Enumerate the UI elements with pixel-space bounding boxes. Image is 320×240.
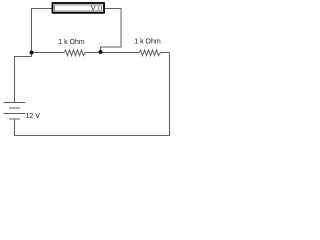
- voltmeter U1 inner display: [55, 5, 102, 11]
- wire: bottom wire: [15, 135, 170, 137]
- svg-text:V: V: [91, 6, 96, 13]
- wire: voltmeter left lead horizontal: [31, 8, 52, 10]
- node junction dot right: [99, 50, 103, 54]
- wire: voltmeter left lead vertical: [31, 9, 33, 53]
- wire: right side vertical: [169, 53, 171, 136]
- svg-text:1 k Ohm: 1 k Ohm: [58, 39, 85, 46]
- wire: top main wire left segment: [31, 52, 64, 54]
- resistor R2 1 k Ohm zigzag: [139, 50, 161, 56]
- svg-text:12 V: 12 V: [26, 113, 41, 120]
- voltmeter U1 divider: [98, 5, 100, 11]
- resistor R1 1 k Ohm zigzag: [64, 50, 85, 56]
- svg-text:1 k Ohm: 1 k Ohm: [134, 38, 161, 45]
- wire: left jog vertical: [31, 53, 33, 57]
- wire: top main wire middle segment: [85, 52, 139, 54]
- battery V1 12 V plates: [4, 103, 26, 120]
- node junction dot left: [30, 51, 34, 55]
- wire: left jog horizontal: [14, 56, 32, 58]
- wire: top main wire right segment: [161, 52, 170, 54]
- wire: battery top vertical: [14, 57, 16, 103]
- wire: voltmeter right lead: [101, 9, 122, 52]
- wire: bottom left vertical to battery: [14, 119, 16, 136]
- voltmeter U1 outer box: [53, 3, 105, 13]
